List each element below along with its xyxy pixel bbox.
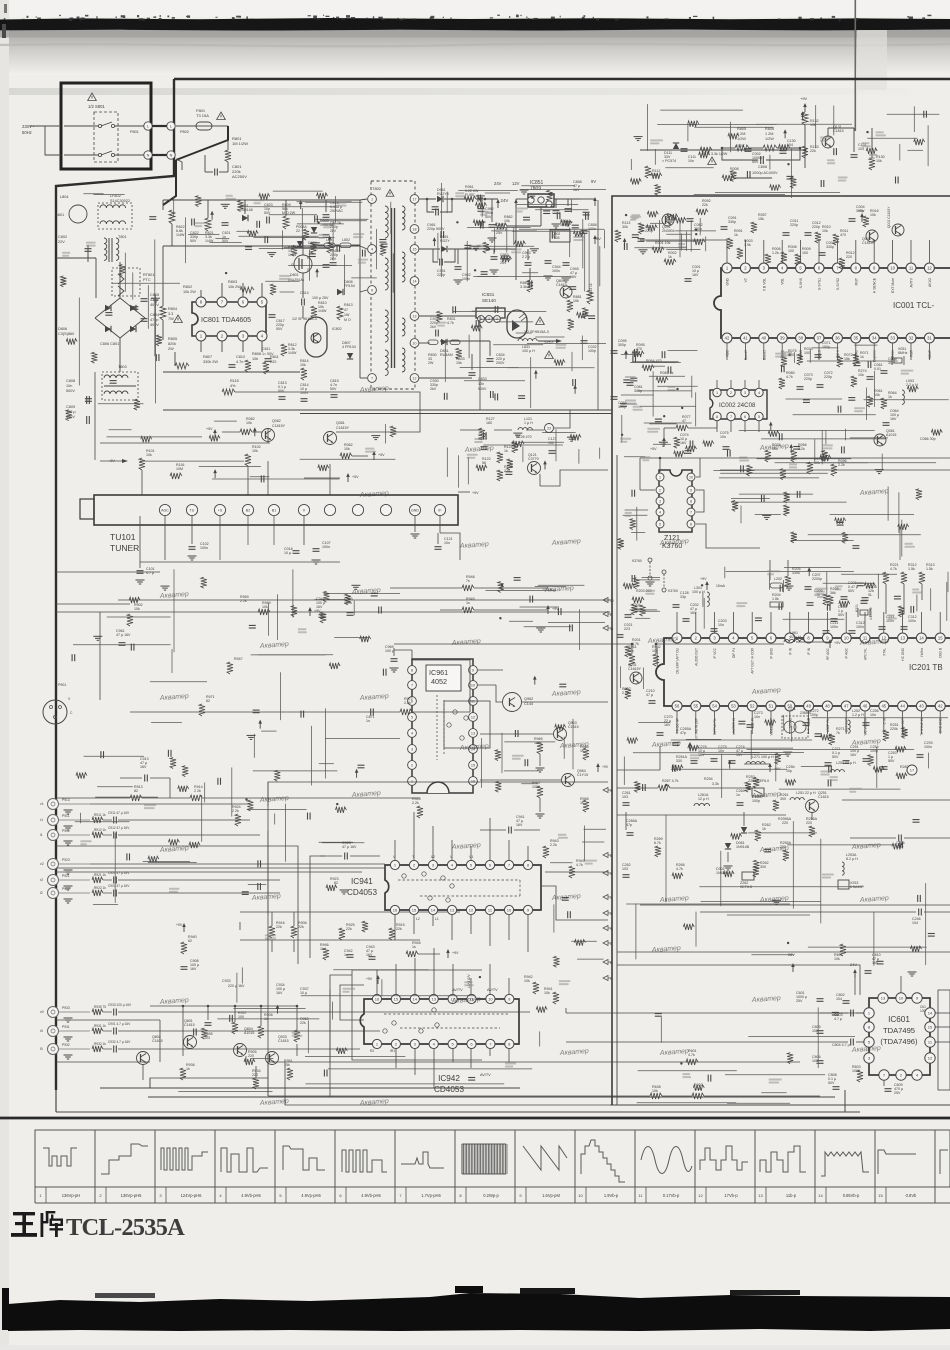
- resistor: [148, 856, 159, 862]
- resistor: [303, 229, 309, 240]
- wires below IC201 bus: [659, 746, 661, 770]
- svg-text:AV/TV: AV/TV: [487, 988, 498, 992]
- svg-text:Y/C GND: Y/C GND: [901, 647, 905, 661]
- pin 10 IC941 bottom: [504, 905, 513, 914]
- resistor: [640, 605, 646, 616]
- capacitor: [371, 592, 378, 594]
- resistor: [731, 834, 742, 840]
- svg-text:P933: P933: [62, 1006, 70, 1010]
- wire: [830, 514, 914, 516]
- svg-text:1.5k: 1.5k: [926, 567, 933, 571]
- capacitor: [738, 720, 745, 722]
- capacitor: [543, 210, 550, 212]
- wire: [212, 478, 339, 480]
- svg-text:GND: GND: [726, 277, 730, 285]
- pin 3 IC601: [864, 1053, 874, 1063]
- svg-text:C911 47 µ 16V: C911 47 µ 16V: [108, 811, 130, 815]
- wires IC001 top pin stubs: [726, 240, 728, 263]
- wire: [385, 424, 387, 444]
- svg-text:50V: 50V: [752, 160, 759, 164]
- pin 13 T802: [410, 312, 419, 321]
- svg-text:R911 1k: R911 1k: [94, 813, 106, 817]
- svg-text:26V: 26V: [788, 953, 795, 957]
- svg-text:12 µ H: 12 µ H: [698, 797, 709, 801]
- svg-text:L271 100 µ H: L271 100 µ H: [752, 755, 774, 759]
- label: [821, 771, 831, 773]
- capacitor: [857, 582, 864, 584]
- wire: [446, 448, 448, 477]
- pin 15 IC201 top: [935, 633, 945, 643]
- wire: [660, 109, 743, 111]
- label: [254, 199, 264, 201]
- node tap 11: [603, 626, 608, 631]
- resistor: [868, 755, 874, 766]
- svg-text:4: 4: [610, 789, 612, 793]
- node waveform 1 trace: [43, 1148, 77, 1166]
- node junction: [336, 803, 338, 805]
- diode D261 in cluster: [741, 827, 747, 833]
- wire: [630, 609, 658, 611]
- capacitor: [260, 475, 262, 482]
- svg-text:0.85Vb-p: 0.85Vb-p: [843, 1193, 860, 1198]
- svg-text:R921 1k: R921 1k: [94, 873, 106, 877]
- resistor: [627, 738, 638, 744]
- svg-text:C IN: C IN: [882, 717, 886, 724]
- connector P932 (L0 input): [48, 1044, 59, 1055]
- pin 47 IC201 bottom: [841, 701, 851, 711]
- pin 5 IC961 left: [408, 713, 417, 722]
- wire: [633, 361, 678, 363]
- wire: [588, 230, 590, 289]
- pin 50 IC201 bottom: [785, 701, 795, 711]
- svg-text:(TDA7496): (TDA7496): [880, 1037, 918, 1046]
- capacitor: [382, 669, 384, 676]
- wire: [624, 456, 645, 458]
- capacitor: [494, 306, 496, 313]
- svg-text:500V: 500V: [478, 387, 487, 391]
- svg-text:1.6Vp-pM: 1.6Vp-pM: [542, 1193, 560, 1198]
- resistor: [784, 505, 790, 516]
- svg-text:2: 2: [610, 613, 612, 617]
- wire: [277, 594, 279, 640]
- wire: [815, 105, 817, 148]
- svg-text:K201: K201: [855, 604, 859, 612]
- resistor: [866, 148, 877, 154]
- svg-text:2 2k: 2 2k: [232, 809, 239, 813]
- svg-text:XOUT: XOUT: [928, 350, 932, 359]
- resistor: [688, 121, 699, 127]
- wire: [516, 203, 578, 205]
- wire: [751, 954, 793, 956]
- wire: [464, 380, 525, 382]
- svg-text:3.3k: 3.3k: [712, 782, 719, 786]
- svg-text:P923: P923: [62, 858, 70, 862]
- warning triangle C806: [708, 157, 717, 165]
- svg-text:10k: 10k: [822, 229, 828, 233]
- scan artifact: left page edge: [0, 0, 9, 1345]
- svg-text:1k: 1k: [186, 1067, 190, 1071]
- wire x160 vertical lower: [159, 1020, 161, 1062]
- svg-text:10n: 10n: [870, 713, 876, 717]
- pin 48 IC201 bottom: [822, 701, 832, 711]
- svg-text:T803: T803: [118, 365, 127, 369]
- svg-text:42: 42: [725, 336, 730, 341]
- resistor: [238, 201, 244, 212]
- svg-text:16V: 16V: [516, 823, 523, 827]
- capacitor: [623, 243, 625, 250]
- capacitor: [257, 883, 259, 890]
- svg-text:+9V: +9V: [602, 765, 609, 769]
- svg-text:100n: 100n: [908, 619, 916, 623]
- svg-text:15: 15: [412, 907, 417, 912]
- capacitor: [480, 222, 482, 229]
- svg-text:P901: P901: [58, 683, 66, 687]
- svg-text:A1015: A1015: [886, 433, 896, 437]
- op-amp IC941 CD4053 body: [385, 865, 541, 910]
- svg-text:100 µ 25V: 100 µ 25V: [312, 296, 329, 300]
- pin 10 IC601: [896, 993, 906, 1003]
- wire: [635, 617, 650, 619]
- capacitor C911 top leads: [160, 803, 250, 805]
- IC002 24C08: [710, 390, 767, 419]
- svg-text:R806: R806: [252, 352, 261, 356]
- svg-text:× PC574: × PC574: [662, 159, 676, 163]
- wire vertical x480 secondary: [479, 316, 481, 410]
- capacitor: [632, 355, 634, 362]
- pin 42 IC001 bottom: [722, 333, 732, 343]
- pin 7 IC942 bottom: [486, 1039, 495, 1048]
- pin 1 IC801 bottom: [196, 331, 206, 341]
- svg-text:AUDIO OUT: AUDIO OUT: [694, 648, 698, 666]
- ground IC601 top: [908, 971, 917, 973]
- capacitor: [524, 759, 526, 766]
- pin 15 T802: [410, 245, 419, 254]
- svg-text:OSD B: OSD B: [939, 648, 943, 658]
- resistor: [873, 767, 884, 773]
- svg-text:7809: 7809: [530, 186, 541, 192]
- svg-text:T271: T271: [788, 707, 796, 711]
- svg-text:103: 103: [858, 147, 864, 151]
- supply arrow: [624, 241, 626, 247]
- svg-text:47p: 47p: [626, 823, 632, 827]
- mains entry box (power switch enclosure): [61, 83, 151, 169]
- label: [455, 192, 464, 194]
- ground: [772, 899, 781, 901]
- wire: [314, 599, 346, 601]
- svg-text:R806: R806: [765, 127, 774, 131]
- wire: [899, 527, 901, 560]
- +9V arrow below IC201: [769, 766, 771, 772]
- svg-text:R922 1k: R922 1k: [94, 886, 106, 890]
- svg-text:11: 11: [610, 627, 614, 631]
- resistor: [630, 519, 636, 530]
- wire: [807, 360, 898, 362]
- pin 1 IC201 top: [672, 633, 682, 643]
- wire: [522, 272, 538, 274]
- svg-text:2.2k: 2.2k: [412, 801, 419, 805]
- wire: [453, 311, 547, 313]
- resistor: [471, 325, 482, 331]
- wire: [584, 826, 586, 862]
- wire: [750, 730, 752, 759]
- wire: [324, 593, 400, 595]
- wire +9V to tuner: [458, 491, 470, 493]
- connector P911 (R1 input): [48, 815, 59, 826]
- svg-text:250VAC: 250VAC: [330, 209, 344, 213]
- svg-text:5: 5: [758, 415, 760, 419]
- svg-text:330p: 330p: [728, 220, 736, 224]
- label: [467, 454, 478, 456]
- svg-text:10k: 10k: [252, 357, 258, 361]
- node junction: [479, 976, 481, 978]
- wire: [876, 747, 878, 788]
- svg-text:230V~: 230V~: [22, 124, 35, 129]
- wire: [642, 668, 644, 690]
- resistor: [512, 442, 518, 453]
- wire: [273, 190, 323, 192]
- pin 9 IC961 right: [469, 666, 478, 675]
- svg-text:R912 1k: R912 1k: [94, 828, 106, 832]
- svg-text:1M 1/2W: 1M 1/2W: [232, 141, 248, 146]
- capacitor: [583, 211, 590, 213]
- svg-text:1/4W: 1/4W: [288, 351, 297, 355]
- wire: [147, 285, 149, 329]
- svg-text:5: 5: [659, 522, 661, 526]
- wire: [188, 233, 219, 235]
- node waveform 7 trace: [401, 1152, 444, 1168]
- svg-text:0.01: 0.01: [874, 367, 881, 371]
- +9V arrow IC942 left: [377, 978, 379, 984]
- svg-text:100p: 100p: [822, 345, 830, 349]
- warning triangle (mains box): [88, 93, 97, 101]
- pin TU TU101: [186, 504, 197, 515]
- supply arrow: [770, 425, 772, 431]
- capacitor: [631, 575, 633, 582]
- wire: [913, 106, 915, 132]
- svg-text:100n: 100n: [552, 269, 560, 273]
- pin 7 T802: [368, 374, 377, 383]
- supply arrow: [214, 472, 216, 478]
- wire: [620, 666, 622, 688]
- resistor: [892, 843, 903, 849]
- wires IC942 nest left: [340, 985, 364, 1020]
- capacitor: [746, 171, 748, 178]
- label: [62, 252, 70, 254]
- svg-text:AV/TV: AV/TV: [480, 1073, 491, 1077]
- pin 1 IC941 top: [390, 860, 399, 869]
- svg-text:v0: v0: [40, 1010, 44, 1014]
- svg-text:12V: 12V: [512, 181, 520, 186]
- svg-text:16V: 16V: [692, 273, 699, 277]
- svg-text:200V: 200V: [496, 361, 505, 365]
- svg-text:R813: R813: [344, 303, 353, 307]
- capacitor: [452, 306, 454, 313]
- label: [668, 386, 676, 388]
- svg-text:2W: 2W: [428, 361, 434, 365]
- resistor: [141, 436, 152, 442]
- ground: [151, 297, 160, 299]
- wires IC961 top area: [394, 643, 632, 645]
- wire: [647, 104, 649, 151]
- wire: [307, 1021, 309, 1054]
- capacitor: [100, 751, 102, 758]
- ground: [513, 432, 522, 434]
- svg-text:12: 12: [469, 907, 474, 912]
- wire: [204, 783, 206, 803]
- svg-text:C812: C812: [236, 355, 245, 359]
- wire: [582, 841, 604, 843]
- svg-text:31: 31: [927, 336, 932, 341]
- capacitor: [551, 232, 553, 239]
- capacitor: [378, 607, 380, 614]
- pin 13 IC601: [878, 993, 888, 1003]
- svg-text:OIF P4: OIF P4: [732, 648, 736, 658]
- wire: [658, 220, 660, 249]
- pin 6 IC942 bottom: [467, 1039, 476, 1048]
- capacitor: [362, 250, 364, 257]
- svg-text:1/2 SFH615A-3: 1/2 SFH615A-3: [524, 330, 549, 334]
- pin 14 T802: [410, 277, 419, 286]
- label: [336, 202, 346, 204]
- capacitor: [833, 148, 835, 155]
- capacitor: [379, 239, 386, 241]
- wire: [571, 199, 573, 213]
- capacitor: [300, 711, 302, 718]
- pin nc TU101: [380, 504, 391, 515]
- svg-text:7W: 7W: [168, 317, 174, 321]
- svg-text:+5V: +5V: [858, 209, 865, 213]
- resistor: [822, 450, 828, 461]
- wire: [584, 233, 586, 292]
- svg-text:+9V: +9V: [366, 977, 373, 981]
- svg-text:220: 220: [252, 1073, 258, 1077]
- wire: [724, 567, 726, 579]
- wire: [563, 737, 565, 759]
- tuner TU101 body: [94, 495, 458, 525]
- pin 6 IC002 bottom: [741, 412, 749, 420]
- svg-text:10n: 10n: [718, 623, 724, 627]
- svg-text:6: 6: [744, 415, 746, 419]
- node tap 3: [603, 911, 608, 916]
- wire: [812, 347, 838, 349]
- wire right half h-bus y470: [720, 469, 950, 471]
- svg-text:38: 38: [798, 336, 803, 341]
- label: [781, 351, 792, 353]
- svg-text:1: 1: [610, 896, 612, 900]
- wire: [654, 149, 656, 165]
- svg-text:+9V: +9V: [176, 923, 183, 927]
- svg-text:B1: B1: [272, 508, 276, 512]
- svg-text:220p: 220p: [804, 377, 812, 381]
- pin 4 IC001 top: [777, 263, 787, 273]
- wire: [820, 839, 822, 924]
- pin 10 IC942 top: [486, 994, 495, 1003]
- svg-text:300: 300: [760, 865, 766, 869]
- label: [279, 275, 291, 277]
- wire: [321, 220, 367, 222]
- node junction: [695, 229, 697, 231]
- svg-text:10k 2W: 10k 2W: [228, 285, 241, 289]
- label: [642, 456, 650, 458]
- ground: [247, 734, 256, 736]
- resistor: [119, 265, 125, 276]
- svg-text:LIMITER IN: LIMITER IN: [732, 717, 736, 734]
- wire: [83, 193, 103, 195]
- wire: [695, 912, 697, 947]
- capacitor: [307, 813, 309, 820]
- pin 15 IC601: [925, 1022, 935, 1032]
- pin nc TU101: [352, 504, 363, 515]
- svg-text:22k: 22k: [298, 925, 304, 929]
- capacitor: [505, 471, 512, 473]
- resistor: [274, 770, 280, 781]
- svg-text:4.7k: 4.7k: [447, 321, 454, 325]
- svg-text:XTAL: XTAL: [882, 648, 886, 656]
- wire: [258, 654, 333, 656]
- supply arrow: [433, 240, 435, 246]
- svg-text:16: 16: [375, 996, 380, 1001]
- svg-text:10k: 10k: [344, 447, 350, 451]
- svg-text:10n: 10n: [478, 382, 484, 386]
- resistor: [916, 489, 922, 500]
- capacitor: [249, 624, 256, 626]
- svg-text:4%: 4%: [230, 384, 236, 388]
- label: [169, 888, 179, 890]
- capacitor: [820, 180, 822, 187]
- wire: [787, 844, 895, 846]
- wire: [731, 501, 847, 503]
- svg-text:C804 4.7 µ: C804 4.7 µ: [832, 1043, 850, 1047]
- resistor: [907, 386, 918, 392]
- svg-text:23: 23: [547, 426, 551, 430]
- svg-text:104: 104: [836, 997, 842, 1001]
- wire: [649, 375, 685, 377]
- svg-text:B2: B2: [246, 508, 250, 512]
- pin 5 IC941 top: [466, 860, 475, 869]
- svg-text:3.3k: 3.3k: [520, 285, 527, 289]
- wire IF out: [440, 533, 460, 560]
- svg-text:4.7k: 4.7k: [676, 867, 683, 871]
- pin 8 IC201 top: [804, 633, 814, 643]
- ground: [783, 751, 792, 753]
- supply arrow: [211, 214, 213, 220]
- svg-text:L804: L804: [60, 195, 68, 199]
- resistor: [310, 243, 316, 254]
- resistor: [898, 524, 909, 530]
- svg-text:S-SYS2: S-SYS2: [836, 278, 840, 290]
- wire: [542, 432, 576, 434]
- node tap 5: [603, 941, 608, 946]
- capacitor: [572, 224, 579, 226]
- svg-text:IR1: IR1: [390, 1049, 395, 1053]
- svg-text:10: 10: [471, 683, 475, 687]
- node L connector P802: [167, 122, 175, 130]
- scan artifact: right vertical line: [855, 0, 857, 131]
- pin 49 IC201 bottom: [804, 701, 814, 711]
- svg-text:50V: 50V: [276, 327, 283, 331]
- pin 4 IC601: [912, 1070, 922, 1080]
- svg-text:C1815: C1815: [152, 1039, 163, 1043]
- svg-text:16: 16: [471, 779, 475, 783]
- pin 5 IC942 bottom: [448, 1039, 457, 1048]
- capacitor: [585, 213, 587, 220]
- capacitor: [630, 377, 637, 379]
- svg-text:+5V: +5V: [206, 427, 213, 431]
- supply arrow: [534, 679, 536, 685]
- svg-text:220k: 220k: [890, 727, 898, 731]
- svg-text:136Vp-pH: 136Vp-pH: [62, 1193, 80, 1198]
- resistor: [555, 724, 566, 730]
